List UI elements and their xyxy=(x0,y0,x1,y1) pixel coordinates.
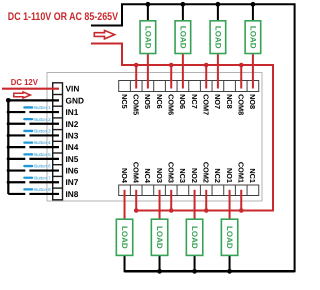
svg-text:COM1: COM1 xyxy=(237,162,246,183)
svg-text:COM7: COM7 xyxy=(202,94,211,115)
svg-text:Button 5: Button 5 xyxy=(34,152,51,157)
svg-text:VIN: VIN xyxy=(66,84,80,94)
svg-text:NC3: NC3 xyxy=(178,168,187,183)
svg-text:NO7: NO7 xyxy=(213,94,222,109)
svg-text:COM3: COM3 xyxy=(167,162,176,183)
svg-text:LOAD: LOAD xyxy=(213,26,222,49)
svg-text:NC4: NC4 xyxy=(143,168,152,184)
svg-text:IN4: IN4 xyxy=(66,142,79,152)
svg-text:IN3: IN3 xyxy=(66,130,79,140)
svg-text:DC 1-110V OR AC 85-265V: DC 1-110V OR AC 85-265V xyxy=(8,11,119,23)
svg-text:COM4: COM4 xyxy=(132,162,141,184)
svg-text:Button 7: Button 7 xyxy=(34,175,51,180)
svg-text:GND: GND xyxy=(66,95,84,105)
svg-text:LOAD: LOAD xyxy=(143,26,152,49)
svg-text:IN2: IN2 xyxy=(66,119,79,129)
svg-text:IN7: IN7 xyxy=(66,177,79,187)
svg-text:Button 8: Button 8 xyxy=(34,187,51,192)
svg-text:LOAD: LOAD xyxy=(120,226,129,249)
svg-text:Button 3: Button 3 xyxy=(34,129,51,134)
svg-text:NC6: NC6 xyxy=(155,94,164,109)
svg-text:Button 4: Button 4 xyxy=(34,140,51,145)
svg-text:IN1: IN1 xyxy=(66,107,79,117)
svg-text:NO8: NO8 xyxy=(248,94,257,109)
svg-text:NO2: NO2 xyxy=(190,168,199,183)
svg-text:NC8: NC8 xyxy=(225,94,234,109)
svg-text:NO5: NO5 xyxy=(143,94,152,109)
svg-text:COM8: COM8 xyxy=(237,94,246,115)
svg-text:NC2: NC2 xyxy=(213,168,222,183)
svg-text:LOAD: LOAD xyxy=(155,226,164,249)
svg-text:DC 12V: DC 12V xyxy=(11,77,38,87)
svg-text:NC7: NC7 xyxy=(190,94,199,109)
svg-text:COM2: COM2 xyxy=(202,162,211,183)
svg-text:IN8: IN8 xyxy=(66,189,79,199)
svg-text:NC5: NC5 xyxy=(120,94,129,109)
svg-text:NO6: NO6 xyxy=(178,94,187,109)
svg-text:LOAD: LOAD xyxy=(190,226,199,249)
svg-text:Button 1: Button 1 xyxy=(34,105,51,110)
svg-text:COM5: COM5 xyxy=(132,94,141,115)
svg-text:LOAD: LOAD xyxy=(248,26,257,49)
svg-text:IN5: IN5 xyxy=(66,154,79,164)
svg-text:LOAD: LOAD xyxy=(178,26,187,49)
svg-text:LOAD: LOAD xyxy=(225,226,234,249)
svg-text:NO4: NO4 xyxy=(120,168,129,184)
svg-text:NO1: NO1 xyxy=(225,168,234,183)
svg-text:NO3: NO3 xyxy=(155,168,164,183)
svg-text:COM6: COM6 xyxy=(167,94,176,115)
svg-text:IN6: IN6 xyxy=(66,166,79,176)
svg-text:NC1: NC1 xyxy=(248,168,257,183)
svg-text:Button 6: Button 6 xyxy=(34,164,51,169)
svg-text:Button 2: Button 2 xyxy=(34,117,51,122)
